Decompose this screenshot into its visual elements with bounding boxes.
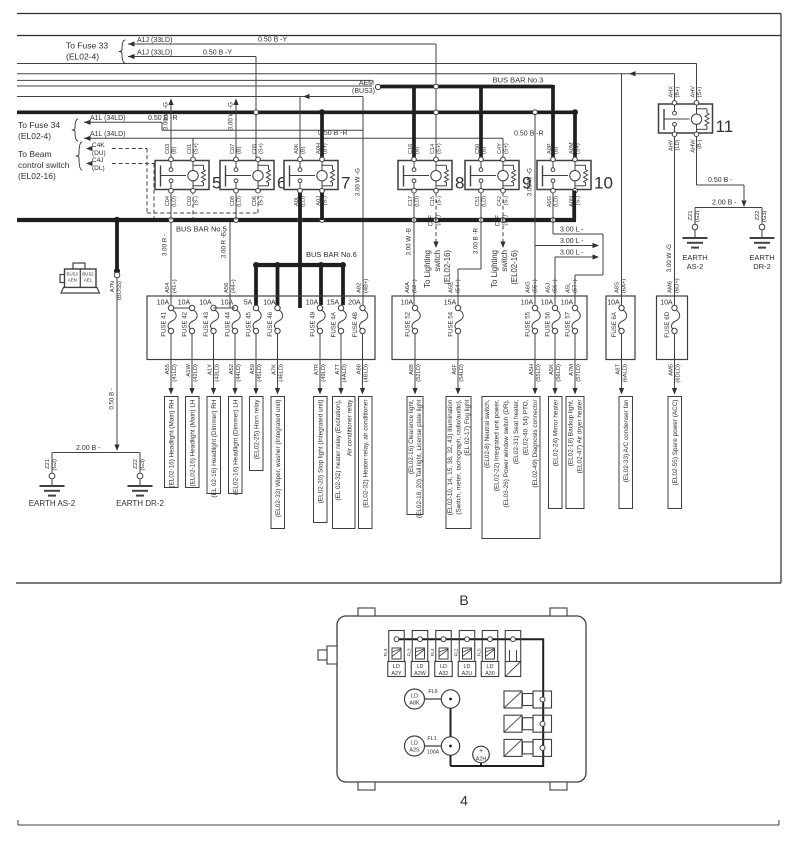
svg-text:0.50 B -: 0.50 B - (708, 177, 733, 184)
svg-text:FUSE 6D: FUSE 6D (664, 311, 671, 337)
svg-text:FUSE 46: FUSE 46 (267, 311, 274, 336)
label box: stop light (314, 397, 328, 523)
svg-text:A30: A30 (485, 671, 495, 677)
svg-text:A0H: A0H (316, 143, 322, 154)
wire: 3.00 L arrow 2 (535, 245, 594, 247)
svg-text:FUSE 57: FUSE 57 (565, 311, 572, 336)
svg-text:15A: 15A (444, 300, 457, 307)
fusible link terminal 2 (412, 631, 428, 662)
wire: output A6F (54LD) (457, 334, 459, 389)
svg-text:A5K: A5K (549, 364, 555, 375)
svg-text:(DU): (DU) (92, 150, 106, 157)
label box: headlight dimmer RH (207, 397, 221, 498)
svg-text:(44+): (44+) (231, 279, 237, 293)
svg-text:C05: C05 (252, 144, 258, 154)
svg-text:10A: 10A (521, 300, 534, 307)
svg-text:(S+): (S+) (503, 143, 509, 154)
wire: 2.00 B earth tie (right) (695, 207, 762, 209)
svg-text:(LD): (LD) (675, 139, 681, 150)
svg-text:3.00 W -B: 3.00 W -B (406, 228, 413, 256)
svg-text:FUSE 41: FUSE 41 (161, 311, 168, 336)
svg-text:AM5: AM5 (668, 364, 674, 376)
svg-text:FL3: FL3 (407, 648, 412, 656)
wire: fuse43-44 tie (214, 307, 236, 309)
fuse FUSE 54 (15A) (444, 300, 463, 337)
wire: bus3 drop to relay 10 B (551, 85, 555, 158)
svg-text:(EL02-55) Spare power (ACC): (EL02-55) Spare power (ACC) (672, 400, 679, 486)
svg-text:AHW: AHW (690, 139, 696, 153)
svg-text:3.00 B -R: 3.00 B -R (473, 227, 480, 254)
svg-text:(6A+): (6A+) (621, 279, 627, 293)
svg-text:(EL02-47) Air dryer heater: (EL02-47) Air dryer heater (577, 399, 584, 474)
svg-text:3.00 W -G: 3.00 W -G (163, 102, 170, 130)
svg-text:A56: A56 (224, 283, 230, 293)
svg-text:C4K: C4K (92, 142, 105, 149)
svg-text:C01: C01 (187, 144, 193, 154)
wire: A1L (34LD) line 2 to relay5 S+ / relay9 S+ (84, 137, 503, 139)
svg-text:10A: 10A (263, 300, 276, 307)
label box: spare power (668, 397, 682, 509)
wire: output A55 (41LD) (170, 334, 172, 389)
battery terminal A2H (473, 746, 490, 763)
svg-text:C17: C17 (408, 196, 414, 206)
svg-text:A0P: A0P (547, 143, 553, 154)
svg-text:AEM: AEM (359, 80, 374, 87)
wire: 3.00 L arrow 3 (555, 256, 594, 258)
wire: output A6B (52LD) (414, 334, 416, 389)
svg-text:(S+): (S+) (697, 87, 703, 98)
svg-text:FUSE 55: FUSE 55 (525, 311, 532, 336)
wire: bus6 drop x=321 (319, 265, 323, 305)
svg-text:Z21: Z21 (688, 211, 694, 221)
svg-text:FUSE 6A: FUSE 6A (611, 311, 618, 337)
svg-text:LD: LD (440, 664, 447, 670)
svg-text:(54LD): (54LD) (459, 364, 465, 382)
svg-text:LD: LD (393, 664, 400, 670)
svg-text:(S+): (S+) (193, 143, 199, 154)
wire: output A59 (45LD) (255, 334, 257, 389)
svg-text:FL4: FL4 (430, 648, 435, 656)
svg-text:10: 10 (594, 174, 613, 193)
svg-text:(44LD): (44LD) (236, 364, 242, 382)
wire: A1J (33LD) line 2 to relay6 S+ (128, 56, 256, 58)
svg-text:FUSE 43: FUSE 43 (203, 311, 210, 336)
empty fusible link slot (509, 650, 511, 662)
label box: mirror heater (549, 397, 563, 509)
connector Z21 (right) (692, 224, 698, 230)
svg-text:Air conditioner relay: Air conditioner relay (346, 399, 353, 456)
svg-text:(57LD): (57LD) (576, 364, 582, 382)
wire: relay5 B up-feed 3.00 W-G (170, 99, 172, 158)
wire: relay6 B up-feed 3.00 W-G (235, 99, 237, 158)
svg-text:C07: C07 (230, 144, 236, 154)
svg-text:10A: 10A (306, 300, 319, 307)
svg-text:0.50 B -: 0.50 B - (109, 388, 116, 410)
svg-text:DR-2: DR-2 (753, 262, 771, 271)
svg-text:FUSE 42: FUSE 42 (182, 311, 189, 336)
svg-text:A1Y: A1Y (207, 364, 213, 375)
svg-text:(EL02-16) Clearance light,: (EL02-16) Clearance light, (408, 399, 415, 474)
svg-text:(EL02-18, 20) Tail light, Lice: (EL02-18, 20) Tail light, License plate … (416, 399, 423, 518)
svg-text:10A: 10A (221, 300, 234, 307)
relay slot 3 (504, 739, 522, 756)
label box: neutral switch etc (482, 397, 540, 539)
svg-text:C08: C08 (230, 196, 236, 206)
svg-text:(LD): (LD) (414, 196, 420, 207)
relay 5 (headlight main RH) (155, 143, 221, 207)
svg-text:A6A: A6A (405, 282, 411, 293)
svg-text:AS-2: AS-2 (687, 262, 704, 271)
svg-text:A5H: A5H (529, 364, 535, 375)
svg-text:switch: switch (500, 250, 509, 272)
fusible link FL1 100A (405, 736, 425, 756)
connector A7N (BUS5) (114, 272, 120, 278)
wire: output AM5 (6DLD) (674, 334, 676, 389)
fuse FUSE 4A (15A) (327, 300, 346, 338)
svg-text:(EL 02-17) Fog light: (EL 02-17) Fog light (464, 399, 471, 455)
fuse box 6A (606, 296, 635, 360)
wire: thick bus (0.50 B-R feed) y=113 (17, 110, 575, 114)
label box: headlight main RH (165, 397, 179, 488)
svg-text:A7T: A7T (335, 364, 341, 375)
svg-text:A55: A55 (165, 364, 171, 374)
svg-text:A59: A59 (250, 364, 256, 374)
label box: heater relay air conditioner (359, 397, 373, 529)
wire: relay11 B- to earths (696, 137, 698, 186)
relay 8 (stop light) (398, 143, 464, 207)
svg-text:(EL02-8) Neutral switch,: (EL02-8) Neutral switch, (484, 399, 491, 468)
svg-text:(6ALD): (6ALD) (622, 364, 628, 382)
wire: bus line feeding relays 5-7 B pins / fuse 4B (17, 96, 363, 98)
svg-text:(EL03-26) Power window switch: (EL03-26) Power window switch (DR), (503, 399, 510, 507)
svg-text:(B): (B) (236, 146, 242, 154)
svg-text:(B): (B) (300, 146, 306, 154)
svg-text:(G3): (G3) (762, 210, 768, 222)
label box: backup light (566, 397, 584, 509)
wire: output A88 (4BLD) (362, 334, 364, 389)
svg-text:FUSE 45: FUSE 45 (246, 311, 253, 336)
svg-text:(4B+): (4B+) (363, 279, 369, 293)
svg-text:A54: A54 (165, 282, 171, 293)
svg-text:FUSE 4A: FUSE 4A (331, 311, 338, 337)
svg-text:(EL02-33) A/C condenser fan: (EL02-33) A/C condenser fan (623, 399, 630, 482)
svg-text:11: 11 (716, 117, 734, 136)
svg-text:(B+): (B+) (322, 143, 328, 154)
svg-text:4: 4 (460, 793, 468, 809)
wire: feed A54 (41+) from bus5 (170, 222, 172, 305)
fuse FUSE 44 (10A) (221, 300, 240, 337)
svg-text:3.00 L -: 3.00 L - (560, 238, 584, 245)
svg-text:LD: LD (411, 694, 418, 700)
wire: separator line (16, 582, 781, 584)
svg-text:To Fuse 33: To Fuse 33 (66, 41, 108, 51)
fuse FUSE 49 (10A) (306, 300, 325, 337)
svg-text:C4Y: C4Y (497, 143, 503, 154)
wire: relay8 S- dashed to lighting switch (435, 193, 437, 243)
fusible link FL4 (LD A32) (439, 648, 448, 659)
wire: bus line to relay11 S+ (17, 63, 697, 65)
svg-text:A8T: A8T (615, 364, 621, 375)
svg-text:A88: A88 (356, 364, 362, 374)
svg-text:(G2): (G2) (695, 210, 701, 222)
svg-text:(41LD): (41LD) (172, 364, 178, 382)
wire: 2.00 B earth tie (left) (52, 452, 140, 454)
svg-text:0.50 B -R: 0.50 B -R (514, 130, 544, 137)
svg-text:(EL02-20) Stop light (Integrat: (EL02-20) Stop light (Integrated unit) (317, 400, 324, 504)
relay slot 1 (504, 691, 522, 708)
svg-text:(56LD): (56LD) (556, 364, 562, 382)
wire: 0.50 B to left earth tie (116, 278, 118, 445)
label box: headlight main LH (186, 397, 200, 488)
fusible link terminal 3 (436, 631, 452, 662)
svg-text:A32: A32 (439, 671, 449, 677)
label box: illumination (446, 397, 471, 529)
svg-text:(43LD): (43LD) (214, 364, 220, 382)
svg-text:(EL02-16) Headlight (Main) RH: (EL02-16) Headlight (Main) RH (168, 399, 175, 487)
fuse FUSE 46 (10A) (263, 300, 282, 337)
svg-text:C50: C50 (475, 144, 481, 154)
fusible link terminal 1 (389, 631, 405, 662)
svg-text:C02: C02 (187, 196, 193, 206)
connector Z22 (left) (137, 473, 143, 479)
fuse FUSE 43 (10A) (199, 300, 218, 337)
fuse FUSE 45 (5A) (244, 300, 262, 337)
wire: relay7 LD thick to bus bar No.6 and fuse box (298, 193, 302, 309)
svg-text:LD: LD (487, 664, 494, 670)
svg-text:FUSE 4B: FUSE 4B (352, 312, 359, 337)
svg-text:FL6: FL6 (428, 689, 437, 695)
relay 7 (horn) (284, 143, 350, 207)
svg-text:(S-): (S-) (575, 196, 581, 205)
label box: A/C condenser fan (619, 397, 633, 509)
relay 9 (tail light) (465, 143, 531, 207)
fusible link FL6 (405, 689, 425, 709)
svg-text:A6G: A6G (526, 281, 532, 293)
svg-text:(EL02-33) Wiper, washer (Integ: (EL02-33) Wiper, washer (Integrated unit… (275, 400, 282, 518)
svg-text:BUS BAR No.3: BUS BAR No.3 (493, 76, 544, 85)
svg-text:(EL02-40, 54) PTO,: (EL02-40, 54) PTO, (523, 399, 530, 455)
wire: output A7R (49LD) (319, 334, 321, 389)
wire: relay9 LD to fuse 54 (480, 193, 482, 270)
fusible link FL4 (LD A2Y) (392, 648, 401, 659)
svg-text:3.00 W -G: 3.00 W -G (527, 168, 534, 196)
internal wiring path (397, 639, 544, 766)
relay 10 (power) (537, 142, 613, 207)
fuse FUSE 52 (10A) (401, 300, 420, 337)
relay 11 (spare) (659, 86, 734, 153)
svg-text:10A: 10A (401, 300, 414, 307)
svg-text:A5J: A5J (546, 283, 552, 293)
svg-text:A5L: A5L (566, 282, 572, 293)
svg-text:A2Y: A2Y (391, 671, 402, 677)
fuse FUSE 41 (10A) (157, 300, 176, 337)
svg-text:A0K: A0K (294, 143, 300, 154)
junction circle upper (441, 690, 459, 708)
wire: bus3 drop to relay 9 B (479, 87, 483, 158)
svg-text:control switch: control switch (18, 160, 70, 170)
svg-text:A1J (33LD): A1J (33LD) (137, 50, 172, 57)
svg-text:3.00 R -: 3.00 R - (162, 234, 169, 256)
svg-text:FUSE 56: FUSE 56 (545, 311, 552, 336)
wire: output A7M (57LD) (574, 334, 576, 389)
wire: fuse 55 feed from bus2 (534, 114, 536, 306)
wire: output A5H (55LD) (534, 334, 536, 389)
fuse FUSE 6A (10A) (607, 300, 626, 338)
fusible link terminal 4 (459, 631, 475, 662)
svg-text:10A: 10A (199, 300, 212, 307)
svg-text:BUS2: BUS2 (82, 272, 94, 277)
wire: relay9 S- dashed to lighting switch (502, 193, 504, 243)
label box: heater relay excitation (333, 397, 356, 529)
svg-text:C42: C42 (497, 196, 503, 206)
svg-text:10A: 10A (561, 300, 574, 307)
svg-text:(LD): (LD) (553, 196, 559, 207)
mounting bracket (327, 646, 337, 664)
svg-text:To Lighting: To Lighting (490, 250, 499, 288)
svg-text:BUS BAR No.6: BUS BAR No.6 (306, 250, 357, 259)
fuse box 6D (657, 296, 688, 360)
svg-text:20A: 20A (348, 300, 361, 307)
wire: A1L (34LD) line 1 (84, 121, 162, 123)
svg-text:FUSE 44: FUSE 44 (225, 311, 232, 336)
svg-text:(6D+): (6D+) (674, 278, 680, 293)
svg-text:A6B: A6B (409, 364, 415, 375)
svg-text:(4BLD): (4BLD) (363, 364, 369, 382)
ground: EARTH AS-2 (right) (683, 238, 708, 248)
connector Z21 (left) (49, 473, 55, 479)
fusible link FL5 (LD A30) (486, 648, 495, 659)
svg-text:C03: C03 (165, 144, 171, 154)
svg-text:0.50 B -Y: 0.50 B -Y (203, 50, 233, 57)
svg-text:(S-): (S-) (193, 196, 199, 205)
svg-text:A82: A82 (356, 283, 362, 293)
svg-text:(LD): (LD) (236, 196, 242, 207)
svg-text:(45LD): (45LD) (257, 364, 263, 382)
relay slot 2 (504, 715, 522, 732)
svg-text:(56+): (56+) (553, 279, 559, 293)
wire: top horizontal line 1 (17, 13, 781, 15)
svg-text:3.00 W -G: 3.00 W -G (228, 102, 235, 130)
wire: bus6 drop x=343 (341, 265, 345, 305)
svg-text:A8S: A8S (614, 282, 620, 293)
svg-text:BUS BAR No.5: BUS BAR No.5 (176, 225, 227, 234)
svg-text:A1W: A1W (186, 363, 192, 376)
svg-text:LD: LD (411, 741, 418, 747)
fusible link FL2 (LD A2U) (463, 648, 472, 659)
svg-text:A6F: A6F (452, 364, 458, 375)
svg-text:A1L (34LD): A1L (34LD) (90, 115, 126, 122)
wire: relay7 B+ thick from bus2 (320, 112, 324, 157)
fusible link terminal 6 (505, 631, 521, 662)
fuse box (main) (147, 296, 375, 360)
svg-text:(S-): (S-) (436, 196, 442, 205)
label box: wiper washer (271, 397, 285, 529)
wire: thick drop from bus5 to A7N connector (115, 220, 119, 271)
svg-text:10A: 10A (157, 300, 170, 307)
svg-text:(EL02-16) Headlight (Dimmer) L: (EL02-16) Headlight (Dimmer) LH (232, 399, 239, 495)
svg-text:FL1: FL1 (427, 736, 436, 742)
svg-text:5A: 5A (244, 300, 253, 307)
fuse box (second) (392, 296, 587, 360)
svg-text:A7K: A7K (271, 364, 277, 375)
fuse FUSE 56 (10A) (541, 300, 560, 337)
wire: output A8T (6ALD) (621, 334, 623, 389)
label box: clearance/tail light (407, 397, 423, 519)
svg-text:+: + (479, 748, 483, 755)
svg-text:(B+): (B+) (675, 87, 681, 98)
wire: feed A56 (44+) from bus5 (229, 222, 231, 308)
svg-text:(6DLD): (6DLD) (675, 364, 681, 383)
wire: relay7 B up-feed (299, 97, 301, 158)
svg-text:B: B (459, 592, 468, 608)
wire: relay7 S- thick to bus5 (320, 193, 324, 221)
svg-text:(B): (B) (553, 146, 559, 154)
svg-text:(S+): (S+) (575, 143, 581, 154)
svg-text:(EL02-4): (EL02-4) (18, 131, 51, 141)
svg-text:A2S: A2S (409, 748, 420, 754)
wire: bus line 3 (17, 79, 372, 81)
svg-text:Z22: Z22 (755, 211, 761, 221)
wire: bus line to AEM connector (17, 85, 372, 87)
svg-text:(52LD): (52LD) (416, 364, 422, 382)
svg-text:C15: C15 (430, 196, 436, 206)
svg-text:(BUS5): (BUS5) (117, 281, 123, 300)
svg-text:(EL02-49) Diagnosis connector: (EL02-49) Diagnosis connector (532, 399, 539, 488)
svg-text:(B-): (B-) (697, 139, 703, 148)
wire: bus line to relay11 B+ and fuse 6A (17, 73, 675, 75)
svg-text:(52+): (52+) (412, 279, 418, 293)
svg-text:(G2): (G2) (52, 459, 58, 471)
svg-text:(DL): (DL) (92, 165, 105, 172)
wire: output A1W (42LD) (191, 334, 193, 389)
svg-text:0.50 B -Y: 0.50 B -Y (258, 37, 288, 44)
wire: output A7K (46LD) (277, 334, 279, 389)
svg-text:LD: LD (464, 664, 471, 670)
svg-text:C4J: C4J (92, 157, 104, 164)
svg-text:10A: 10A (178, 300, 191, 307)
svg-text:A0G: A0G (547, 196, 553, 207)
label box: horn relay (250, 397, 264, 471)
svg-text:(EL02-22) Integrated unit powe: (EL02-22) Integrated unit power, (494, 399, 501, 491)
wire: bottom frame line (18, 824, 779, 826)
svg-text:(4ALD): (4ALD) (342, 364, 348, 382)
svg-text:3.00 L -: 3.00 L - (560, 227, 584, 234)
svg-text:(EL02-31) Seat heater,: (EL02-31) Seat heater, (513, 399, 520, 464)
wire: top horizontal line 2 (17, 35, 781, 37)
svg-text:(57+): (57+) (573, 279, 579, 293)
svg-text:C51: C51 (475, 196, 481, 206)
svg-text:(55+): (55+) (533, 279, 539, 293)
svg-text:100A: 100A (427, 750, 440, 756)
svg-text:(LD): (LD) (481, 196, 487, 207)
svg-text:(S-): (S-) (258, 196, 264, 205)
svg-text:A7N: A7N (110, 281, 116, 292)
wire: bus6 drop x=277.5 (276, 265, 280, 305)
svg-text:C16: C16 (408, 144, 414, 154)
svg-text:A2H: A2H (476, 757, 487, 763)
wire: relay6 LD to bus5 (235, 193, 237, 221)
svg-text:A2U: A2U (462, 671, 473, 677)
svg-text:(42LD): (42LD) (193, 364, 199, 382)
svg-text:Z21: Z21 (45, 459, 51, 469)
fusible link FL3 (LD A2W) (416, 648, 425, 659)
svg-text:(46LD): (46LD) (278, 364, 284, 382)
bus bar No.5 (17, 218, 576, 222)
svg-text:2.00 B -: 2.00 B - (712, 200, 737, 207)
fuse FUSE 42 (10A) (178, 300, 197, 337)
svg-text:A5E: A5E (449, 282, 455, 293)
ground: EARTH AS-2 (left) (40, 486, 65, 496)
